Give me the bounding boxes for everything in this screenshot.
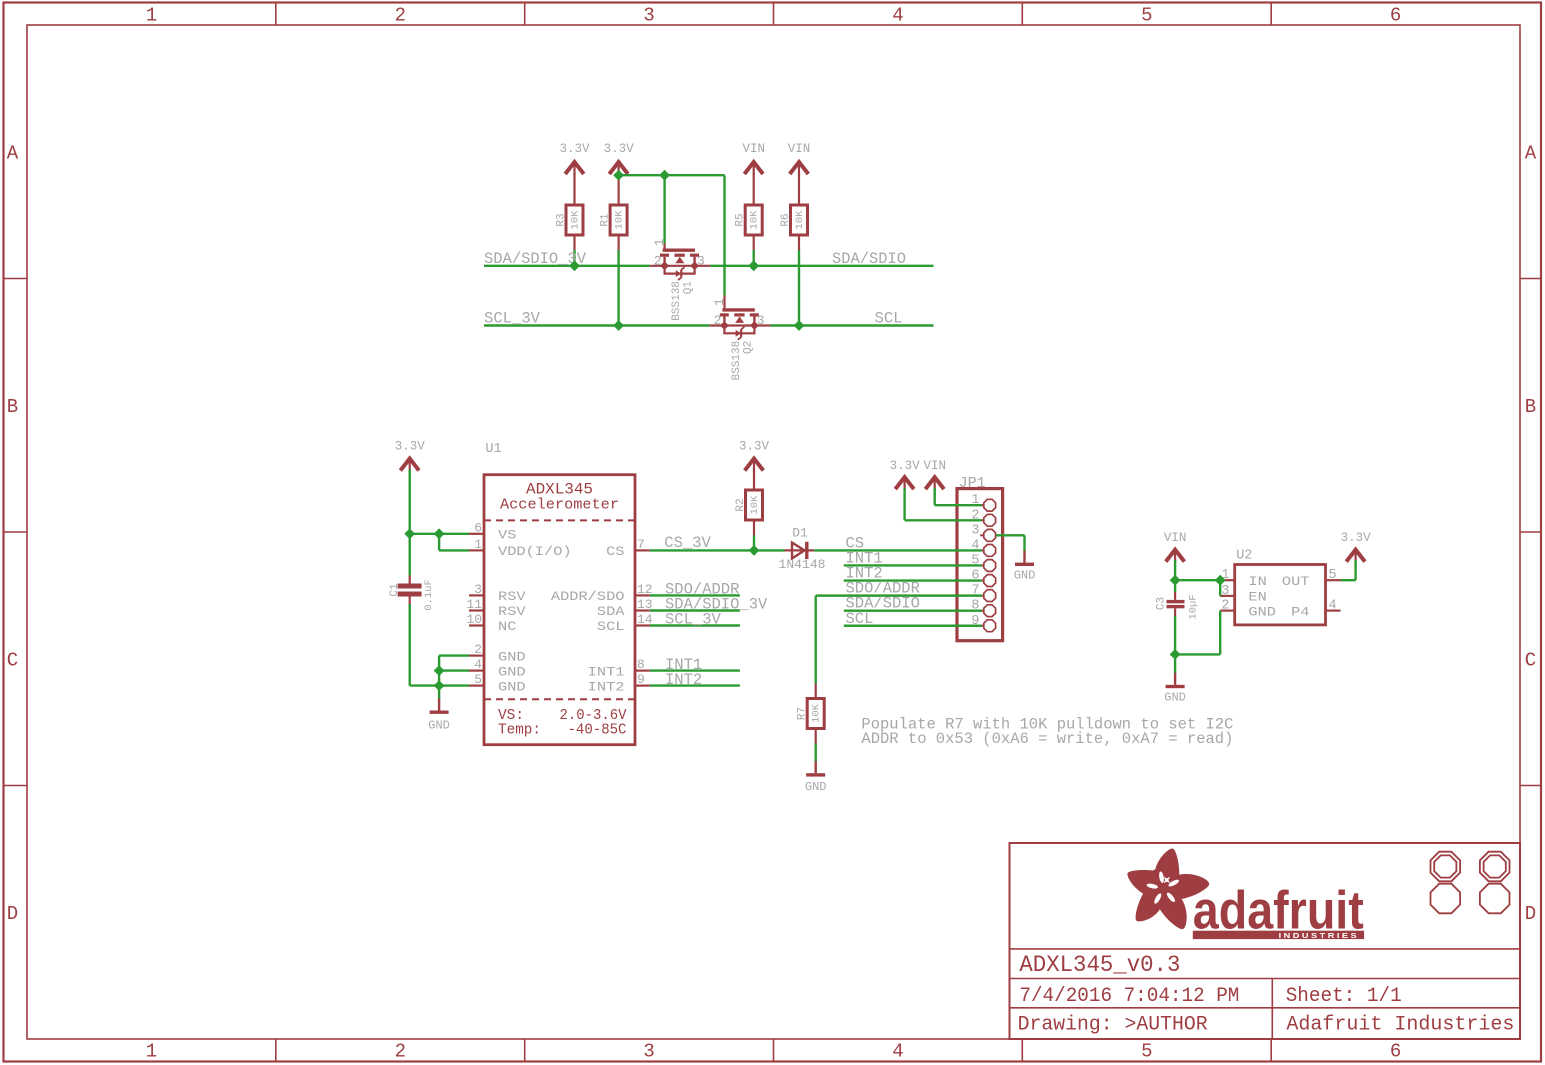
net SCL (JP1) [844, 610, 982, 628]
net SDA/SDIO_3V [484, 235, 650, 268]
JP1 pin 9 [971, 614, 995, 632]
svg-text:D: D [1525, 903, 1536, 925]
net CS_3V [650, 520, 785, 552]
svg-text:10K: 10K [794, 210, 806, 230]
svg-text:NC: NC [498, 620, 516, 634]
supply 3.3V (R1) [604, 142, 635, 175]
svg-text:ADXL345: ADXL345 [526, 481, 593, 499]
svg-text:7: 7 [637, 537, 645, 552]
junction R6/SCL [794, 320, 805, 331]
svg-text:R1: R1 [600, 213, 612, 227]
net 3.3V to U1 [410, 470, 469, 576]
wire 3.3V to R1 [617, 173, 619, 205]
junction GND pin4 [434, 665, 445, 676]
svg-text:3: 3 [971, 523, 979, 538]
svg-text:D1: D1 [792, 526, 808, 541]
svg-text:R2: R2 [735, 498, 747, 511]
junction C3/GND [1170, 649, 1181, 660]
JP1 pin 1 [971, 493, 995, 511]
svg-text:GND: GND [498, 650, 526, 664]
svg-text:3.3V: 3.3V [1341, 531, 1372, 545]
U2 pin 2 GND [1220, 599, 1276, 620]
junction R2/CS_3V [749, 545, 760, 556]
U1 pin 11 RSV [466, 597, 526, 619]
U2 pin 4 P4 [1291, 599, 1340, 620]
svg-text:GND: GND [805, 780, 827, 794]
svg-text:OUT: OUT [1282, 574, 1310, 589]
svg-text:INT1: INT1 [588, 665, 625, 679]
JP1 pin 6 [971, 569, 995, 587]
resistor R3 [556, 205, 584, 235]
svg-text:2: 2 [395, 1041, 406, 1063]
svg-text:6: 6 [1390, 1041, 1401, 1063]
svg-text:R5: R5 [735, 213, 747, 226]
svg-text:A: A [7, 142, 19, 164]
svg-text:GND: GND [498, 680, 526, 694]
supply VIN (JP1) [923, 459, 946, 490]
supply 3.3V (JP1) [890, 459, 921, 490]
svg-text:SCL: SCL [846, 610, 874, 628]
svg-text:3: 3 [643, 1041, 654, 1063]
JP1 pin 4 [971, 538, 995, 556]
svg-text:6: 6 [474, 520, 482, 535]
junction R3/SDA_3V [569, 260, 580, 271]
svg-text:-40-85C: -40-85C [568, 723, 627, 739]
U1 pin 1 VDD(I/O) [469, 537, 572, 559]
svg-text:ADXL345_v0.3: ADXL345_v0.3 [1019, 952, 1180, 978]
net GND (U2) [1175, 611, 1220, 673]
svg-text:R3: R3 [556, 213, 568, 226]
junction R5/SDA [748, 260, 759, 271]
transistor Q1 BSS138 [650, 238, 711, 320]
supply VIN (R6) [788, 142, 811, 175]
resistor R6 [780, 205, 808, 235]
svg-text:1N4148: 1N4148 [779, 557, 826, 572]
net INT1 (JP1) [844, 549, 982, 567]
svg-text:4: 4 [1329, 599, 1337, 614]
U2 pin 5 OUT [1282, 568, 1341, 589]
JP1 pin 8 [971, 599, 995, 617]
svg-text:A: A [1525, 142, 1537, 164]
JP1 pin 5 [971, 553, 995, 571]
net SDA/SDIO (JP1) [844, 595, 982, 613]
U1 pin 12 ADDR/SDO [551, 582, 653, 604]
svg-text:4: 4 [474, 657, 482, 672]
junction 3.3V/C1 [404, 528, 415, 539]
svg-text:R6: R6 [780, 213, 792, 226]
svg-text:ADDR/SDO: ADDR/SDO [551, 590, 625, 604]
net INT2 (JP1) [844, 565, 982, 583]
svg-text:3.3V: 3.3V [890, 459, 921, 473]
net SCL_3V (U1 side) [650, 611, 740, 629]
svg-text:3: 3 [757, 313, 765, 328]
net SDO/ADDR (JP1) [816, 580, 982, 598]
svg-text:C: C [7, 649, 18, 671]
svg-text:1: 1 [712, 298, 727, 306]
transistor Q2 BSS138 [710, 298, 771, 380]
svg-text:10K: 10K [811, 703, 823, 723]
svg-text:Sheet: 1/1: Sheet: 1/1 [1286, 985, 1402, 1008]
supply VIN (U2) [1164, 531, 1187, 563]
svg-text:SCL: SCL [597, 620, 625, 634]
svg-text:JP1: JP1 [959, 475, 986, 492]
IC U2 regulator [1235, 549, 1326, 625]
JP1 pin 3 [971, 523, 995, 541]
svg-text:CS: CS [606, 545, 624, 559]
U1 pin 5 GND [469, 672, 526, 694]
resistor R7 [797, 699, 825, 729]
svg-text:VDD(I/O): VDD(I/O) [498, 545, 572, 559]
wire R7 to GND [815, 729, 817, 762]
svg-text:RSV: RSV [498, 605, 526, 619]
svg-text:10K: 10K [749, 495, 761, 515]
supply VIN (R5) [742, 142, 765, 175]
svg-text:VIN: VIN [1164, 531, 1187, 545]
svg-text:5: 5 [1141, 5, 1152, 27]
svg-text:Drawing: >AUTHOR: Drawing: >AUTHOR [1018, 1014, 1208, 1037]
U1 pin 6 VS [469, 520, 516, 542]
svg-text:D: D [7, 903, 18, 925]
svg-text:1: 1 [474, 537, 482, 552]
svg-text:3: 3 [643, 5, 654, 27]
svg-text:10: 10 [466, 612, 482, 627]
net SDA/SDIO [710, 235, 933, 268]
U1 pin 10 NC [466, 612, 516, 634]
supply 3.3V (R2) [739, 440, 770, 472]
svg-text:GND: GND [1248, 604, 1276, 619]
svg-text:10K: 10K [749, 210, 761, 230]
svg-text:Q1: Q1 [683, 281, 695, 295]
U1 pin 8 INT1 [588, 657, 650, 679]
net SCL_3V [484, 235, 710, 328]
net 3.3V to JP1 pin2 [905, 488, 982, 520]
wire SDO/ADDR to R7 [815, 596, 817, 684]
svg-text:2: 2 [1221, 599, 1229, 614]
U1 pin 13 SDA [597, 597, 653, 619]
svg-text:VS: VS [498, 529, 516, 543]
svg-text:Adafruit Industries: Adafruit Industries [1286, 1014, 1514, 1037]
net GND (U1) [410, 604, 469, 699]
svg-text:U1: U1 [485, 442, 501, 457]
resistor R1 [600, 205, 628, 235]
resistor R2 [735, 490, 763, 520]
svg-text:3.3V: 3.3V [604, 142, 635, 156]
net CS (JP1) [814, 534, 982, 552]
ground (U1) [428, 699, 450, 733]
svg-text:1: 1 [146, 1041, 157, 1063]
wire VIN to R6 [798, 173, 800, 205]
supply 3.3V (U1) [395, 440, 426, 472]
svg-text:2: 2 [395, 5, 406, 27]
junction GND pin5 [434, 680, 445, 691]
svg-text:VIN: VIN [742, 142, 765, 156]
net INT1 (U1 side) [650, 656, 740, 674]
svg-text:6: 6 [1390, 5, 1401, 27]
U1 pin 2 GND [469, 642, 526, 664]
svg-text:Temp:: Temp: [498, 723, 541, 739]
svg-text:B: B [7, 396, 18, 418]
svg-text:3.3V: 3.3V [739, 440, 770, 454]
U1 pin 4 GND [469, 657, 526, 679]
svg-text:2: 2 [714, 313, 722, 328]
svg-text:C3: C3 [1156, 597, 1168, 610]
svg-text:10K: 10K [614, 210, 626, 230]
supply 3.3V (U2 out) [1341, 531, 1372, 563]
svg-text:C: C [1525, 649, 1536, 671]
svg-text:I N D U S T R I E S: I N D U S T R I E S [1279, 931, 1357, 940]
connector JP1 [957, 475, 1003, 641]
junction gate Q1 [659, 170, 670, 181]
svg-text:8: 8 [637, 657, 645, 672]
note text R7 [861, 716, 1233, 749]
svg-text:SCL: SCL [875, 310, 903, 328]
svg-text:Accelerometer: Accelerometer [500, 498, 619, 514]
junction VS/VDD [434, 528, 445, 539]
diode D1 1N4148 [779, 526, 826, 573]
resistor R5 [735, 205, 763, 235]
svg-text:VIN: VIN [788, 142, 811, 156]
svg-text:2: 2 [474, 642, 482, 657]
JP1 pin 2 [971, 508, 995, 526]
svg-text:SCL_3V: SCL_3V [484, 310, 541, 328]
net SDO/ADDR (U1 side) [650, 581, 740, 599]
svg-text:GND: GND [498, 665, 526, 679]
svg-text:5: 5 [474, 672, 482, 687]
svg-text:3.3V: 3.3V [395, 440, 426, 454]
ground (JP1) [1014, 551, 1036, 583]
svg-text:BSS138: BSS138 [731, 341, 743, 381]
wire VIN to R5 [753, 173, 755, 205]
svg-text:U2: U2 [1236, 549, 1252, 564]
svg-text:3: 3 [474, 582, 482, 597]
junction R1/SCL_3V [613, 320, 624, 331]
svg-text:SDA: SDA [597, 605, 625, 619]
net VIN to U2 [1175, 560, 1220, 596]
svg-text:3: 3 [1221, 584, 1229, 599]
U1 pin 14 SCL [597, 612, 653, 634]
svg-text:1: 1 [146, 5, 157, 27]
capacitor C1 0.1uF [389, 576, 435, 611]
svg-text:1: 1 [652, 238, 667, 246]
U1 pin 9 INT2 [588, 672, 650, 694]
net VIN to JP1 pin1 [935, 488, 982, 505]
svg-text:SCL_3V: SCL_3V [665, 611, 721, 629]
svg-text:10K: 10K [570, 210, 582, 230]
net GND (JP1 pin3) [996, 535, 1025, 551]
svg-text:GND: GND [1164, 691, 1186, 705]
svg-text:B: B [1525, 396, 1536, 418]
junction IN/EN [1215, 575, 1226, 586]
wire R7 top pin [815, 684, 817, 699]
junction VIN/C3 [1170, 575, 1181, 586]
svg-text:3.3V: 3.3V [559, 142, 590, 156]
net SDA/SDIO_3V (U1 side) [650, 596, 768, 614]
svg-text:11: 11 [466, 597, 482, 612]
wire 3.3V to R2 [753, 470, 755, 491]
net 3.3V gate wire [619, 175, 725, 310]
capacitor C3 10uF [1156, 580, 1200, 619]
svg-text:7/4/2016 7:04:12 PM: 7/4/2016 7:04:12 PM [1019, 985, 1239, 1008]
svg-text:ADDR to 0x53 (0xA6 = write, 0x: ADDR to 0x53 (0xA6 = write, 0xA7 = read) [861, 730, 1233, 748]
net SCL [770, 235, 934, 328]
svg-text:IN: IN [1248, 574, 1266, 589]
svg-text:4: 4 [892, 1041, 903, 1063]
ground (U2) [1164, 673, 1186, 705]
svg-text:9: 9 [637, 672, 645, 687]
net 3.3V from OUT [1341, 560, 1356, 580]
svg-text:INT2: INT2 [665, 671, 702, 689]
svg-text:CS_3V: CS_3V [664, 534, 711, 552]
IC U1 ADXL345 [484, 442, 635, 745]
U1 pin 7 CS [606, 537, 650, 559]
svg-text:INT2: INT2 [588, 680, 625, 694]
svg-text:Q2: Q2 [742, 341, 754, 354]
JP1 pin 7 [971, 584, 995, 602]
junction 3.3V/R1 [613, 170, 624, 181]
svg-text:C1: C1 [389, 583, 401, 597]
U2 pin 1 IN [1220, 568, 1267, 589]
svg-text:GND: GND [428, 719, 450, 733]
U1 pin 3 RSV [469, 582, 526, 604]
svg-text:R7: R7 [797, 707, 809, 720]
svg-text:5: 5 [1329, 568, 1337, 583]
svg-text:SDA/SDIO: SDA/SDIO [832, 250, 906, 268]
svg-text:BSS138: BSS138 [671, 281, 683, 321]
svg-text:P4: P4 [1291, 604, 1310, 619]
net INT2 (U1 side) [650, 671, 740, 689]
svg-text:10µF: 10µF [1188, 594, 1200, 619]
svg-text:5: 5 [1141, 1041, 1152, 1063]
supply 3.3V (R3) [559, 142, 590, 175]
svg-text:3: 3 [697, 253, 705, 268]
svg-text:4: 4 [892, 5, 903, 27]
svg-text:RSV: RSV [498, 590, 526, 604]
U2 pin 3 EN [1220, 584, 1267, 605]
svg-text:2: 2 [654, 253, 662, 268]
svg-text:VIN: VIN [923, 459, 946, 473]
svg-text:0.1uF: 0.1uF [423, 579, 435, 611]
svg-text:EN: EN [1248, 590, 1266, 605]
ground (R7) [805, 761, 827, 794]
svg-text:GND: GND [1014, 569, 1036, 583]
wire 3.3V to R3 [573, 173, 575, 205]
